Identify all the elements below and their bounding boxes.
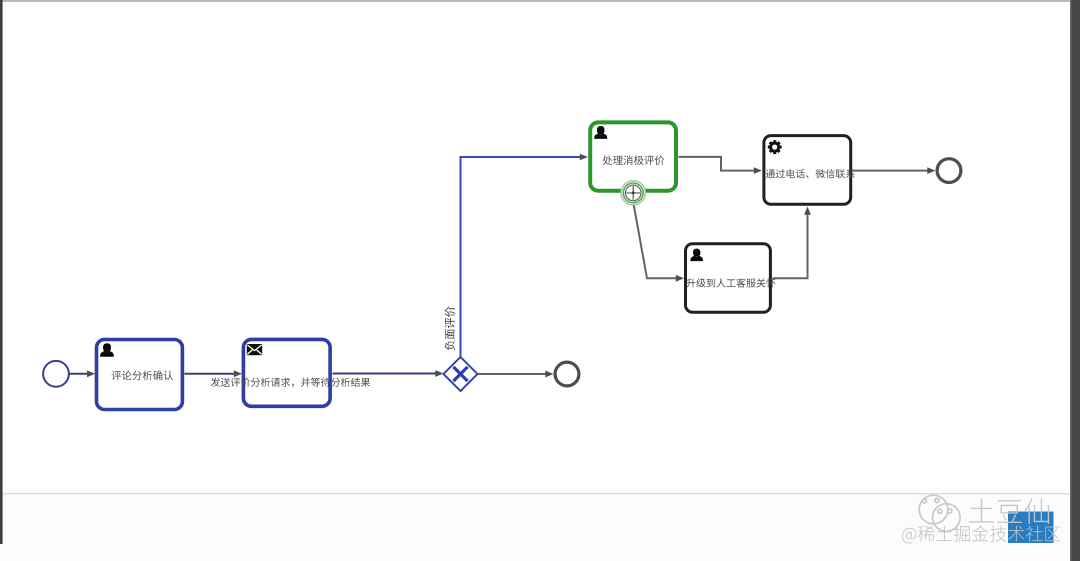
sequence flow: task 升级到人工客服关怀 to task 通过电话微信联系 <box>773 207 811 279</box>
sequence flow: task 通过电话微信联系 to upper end event <box>853 167 936 174</box>
watermark mascot circle large <box>933 504 961 532</box>
task T5 通过电话微信联系 (service task, black) <box>764 136 855 205</box>
flow label 负面评价 (rotated) <box>445 306 455 350</box>
task T4 升级到人工客服关怀 (user task, black) <box>686 244 776 313</box>
left dark window edge <box>0 0 3 544</box>
footer area below canvas <box>0 494 1070 561</box>
watermark mascot circle small <box>919 495 948 524</box>
start event circle <box>43 361 69 387</box>
sequence flow: task 发送评价分析请求 to gateway <box>333 370 444 377</box>
sequence flow: gateway up to task 处理消极评价 (highlighted blue) <box>461 154 589 357</box>
right dark scrollbar strip <box>1070 0 1080 561</box>
sequence flow: gateway to lower end event <box>478 371 554 378</box>
watermark text @稀土掘金技术社区 <box>902 525 1060 543</box>
sequence flow: start event to task 评论分析确认 <box>70 370 96 377</box>
task T3 处理消极评价 (user task, green highlighted) <box>590 122 676 190</box>
upper end event circle <box>937 159 961 183</box>
sequence flow: task 评论分析确认 to task 发送评价分析请求 <box>185 370 243 377</box>
watermark text 土豆仙 <box>969 499 1049 524</box>
task T1 评论分析确认 (user task, blue) <box>97 340 183 410</box>
task T2 发送评价分析请求 (message/send task, blue) <box>211 339 370 406</box>
sequence flow: task 处理消极评价 to task 通过电话微信联系 <box>679 157 763 174</box>
timer boundary event on task 处理消极评价 <box>621 181 645 205</box>
lower end event circle <box>555 362 579 386</box>
watermark blue square <box>1008 512 1054 544</box>
canvas bottom border line <box>2 493 1070 494</box>
sequence flow: timer event to task 升级到人工客服关怀 <box>634 205 684 281</box>
exclusive gateway (X diamond) <box>444 357 478 391</box>
top window border line <box>0 0 1070 2</box>
